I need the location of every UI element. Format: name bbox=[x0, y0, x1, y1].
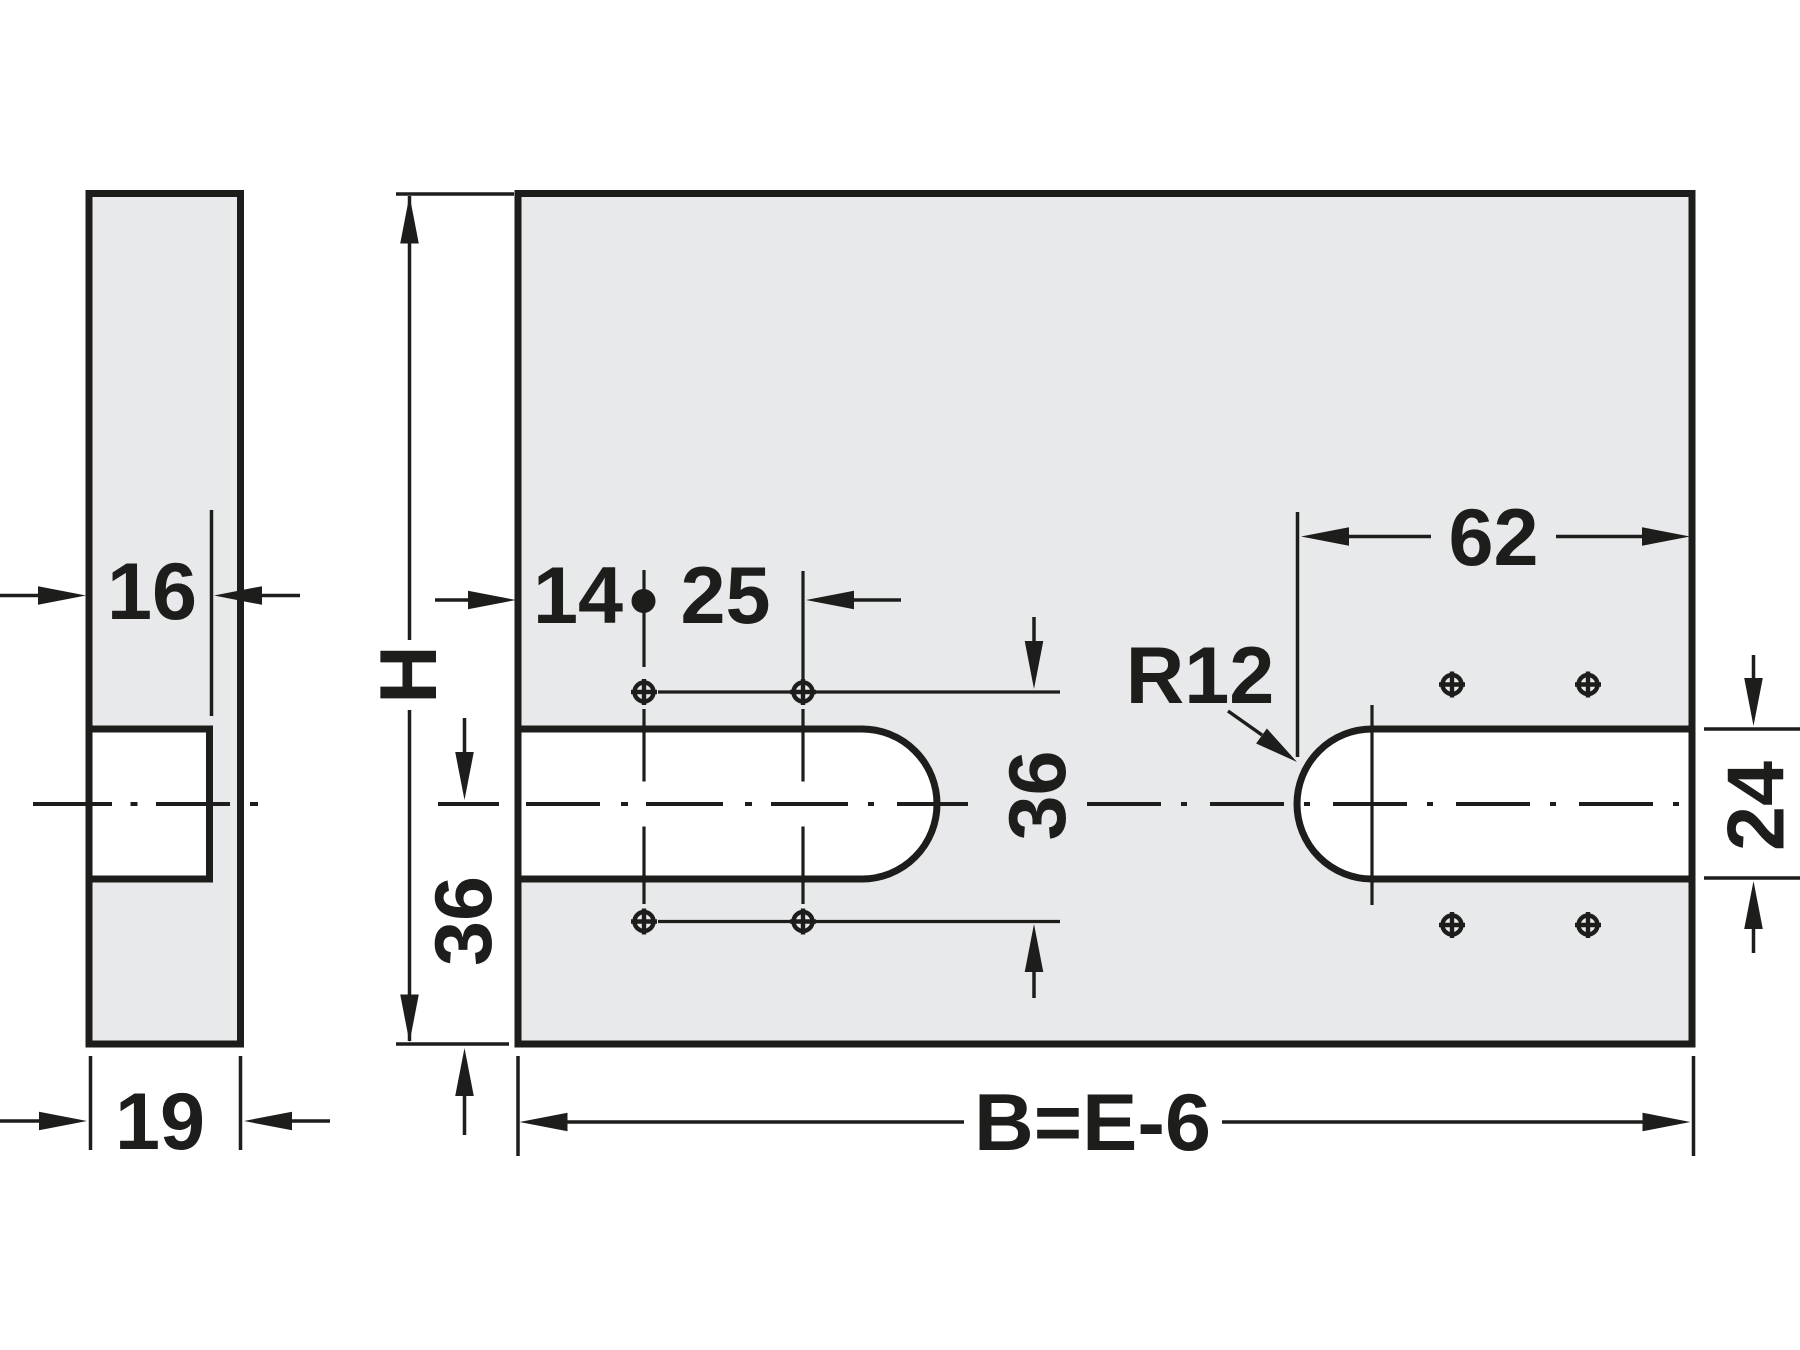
dim B left arrow bbox=[520, 1113, 965, 1132]
svg-text:R12: R12 bbox=[1126, 631, 1275, 721]
dim 19 right arrow bbox=[244, 1112, 330, 1131]
dim H bottom tick bbox=[396, 1042, 509, 1046]
dim 62 right arrow bbox=[1556, 527, 1690, 546]
dim 14 arrow bbox=[435, 591, 516, 610]
dim H top tick bbox=[396, 192, 514, 196]
dim 24 upper tick bbox=[1704, 727, 1800, 731]
dim 19 extension lines bbox=[91, 1056, 241, 1150]
left slot bbox=[518, 729, 937, 879]
main panel outline bbox=[518, 194, 1692, 1045]
dim 36 left lower arrow bbox=[455, 1048, 474, 1135]
hole axis line column 2 bbox=[801, 571, 804, 904]
svg-text:16: 16 bbox=[107, 547, 197, 637]
drill hole crosshair B2 bbox=[1575, 672, 1601, 698]
upper hole row line bbox=[658, 690, 1060, 693]
dim 14 dot marker bbox=[632, 589, 656, 613]
dim 62 left arrow bbox=[1301, 527, 1431, 546]
dim 36 left upper arrow bbox=[455, 718, 474, 800]
drill hole crosshair A2 bbox=[790, 679, 816, 705]
main panel fill bbox=[518, 194, 1692, 1045]
dim B right arrow bbox=[1222, 1113, 1691, 1132]
svg-text:B=E-6: B=E-6 bbox=[974, 1078, 1211, 1168]
svg-text:24: 24 bbox=[1711, 761, 1800, 851]
notch in side view panel bbox=[93, 729, 210, 879]
drill hole crosshair A1 bbox=[631, 679, 657, 705]
dim 24 upper arrow bbox=[1744, 655, 1763, 726]
svg-text:H: H bbox=[364, 645, 454, 704]
dim 24 lower arrow bbox=[1744, 881, 1763, 953]
dim H line and arrows bbox=[400, 196, 419, 1043]
R12 leader arrow bbox=[1228, 711, 1297, 762]
drill hole crosshair B4 bbox=[1575, 912, 1601, 938]
dim B extension line right bbox=[1692, 1056, 1696, 1156]
dim 16 extension line bbox=[210, 510, 214, 716]
hole axis line column 1 bbox=[642, 570, 645, 904]
svg-text:19: 19 bbox=[115, 1077, 205, 1167]
dim 16 right arrow bbox=[214, 586, 300, 605]
drill hole crosshair B3 bbox=[1439, 912, 1465, 938]
svg-text:14: 14 bbox=[533, 551, 623, 641]
right slot arc center line bbox=[1370, 705, 1373, 905]
drill hole crosshair A4 bbox=[790, 909, 816, 935]
right slot bbox=[1297, 729, 1692, 879]
dim 36 middle lower arrow bbox=[1025, 924, 1044, 998]
svg-text:36: 36 bbox=[419, 876, 509, 966]
dim 36 middle upper arrow bbox=[1025, 617, 1044, 689]
dim B extension line left bbox=[516, 1056, 520, 1156]
dim 62 extension line bbox=[1296, 512, 1300, 757]
dim 16 left arrow bbox=[0, 586, 86, 605]
svg-text:25: 25 bbox=[680, 551, 770, 641]
side view panel bbox=[89, 194, 241, 1045]
dim 25 arrow bbox=[806, 591, 901, 610]
svg-text:62: 62 bbox=[1448, 493, 1538, 583]
center line main view bbox=[438, 802, 1679, 806]
drill hole crosshair A3 bbox=[631, 909, 657, 935]
drill hole crosshair B1 bbox=[1439, 672, 1465, 698]
svg-text:36: 36 bbox=[993, 750, 1083, 840]
dim 19 left arrow bbox=[0, 1112, 87, 1131]
center line side view bbox=[33, 802, 258, 806]
lower hole row line bbox=[658, 920, 1060, 923]
dim 24 lower tick bbox=[1704, 876, 1800, 880]
